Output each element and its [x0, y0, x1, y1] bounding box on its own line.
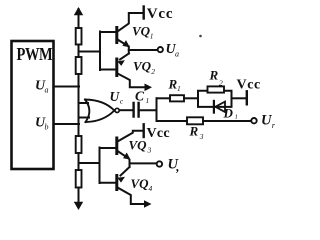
- svg-text:Vcc: Vcc: [147, 126, 170, 141]
- Vcc tick bottom: [142, 124, 144, 137]
- wire capacitor to junction: [140, 109, 157, 111]
- svg-text:1: 1: [177, 84, 181, 93]
- wire base feed bottom pair: [79, 162, 100, 164]
- wire R1 to box: [184, 97, 198, 99]
- resistor (upper chain top): [76, 28, 82, 45]
- svg-text:VQ: VQ: [133, 59, 152, 74]
- svg-text:1: 1: [146, 96, 150, 105]
- wire PWM output Ua: [54, 86, 80, 88]
- wire gate input stub lower: [79, 117, 90, 119]
- svg-text:D: D: [223, 106, 234, 121]
- transistor VQ1 base bar: [115, 28, 118, 43]
- transistor VQ2 collector: [118, 74, 146, 88]
- wire chain: [78, 153, 80, 170]
- svg-text:2: 2: [151, 67, 155, 76]
- wire chain middle: [78, 74, 80, 136]
- wire junction to R1: [157, 97, 171, 99]
- resistor (upper chain bottom): [76, 57, 82, 74]
- wire junction vertical: [156, 98, 158, 121]
- node arrow right (VQ2 collector): [145, 84, 153, 92]
- node terminal Ur: [251, 118, 256, 123]
- wire R3 to output: [203, 120, 251, 122]
- wire lower branch to R3: [157, 120, 188, 122]
- svg-text:a: a: [45, 86, 49, 95]
- wire PWM output Ub: [54, 123, 80, 125]
- resistor R3: [187, 117, 203, 124]
- transistor VQ2 emitter with arrow (PNP): [120, 54, 129, 60]
- resistor R2: [208, 86, 225, 92]
- wire chain bottom: [78, 188, 80, 203]
- wire output Uf: [130, 162, 157, 164]
- wire chain: [78, 45, 80, 58]
- node terminal Uf: [157, 161, 162, 166]
- svg-text:Vcc: Vcc: [147, 6, 174, 22]
- svg-text:1: 1: [235, 113, 238, 120]
- capacitor C1: [134, 103, 139, 117]
- transistor VQ4 base bar: [115, 176, 118, 190]
- resistor (lower chain top): [76, 136, 82, 153]
- svg-text:R: R: [168, 77, 178, 92]
- wire gate input stub upper: [79, 102, 89, 104]
- resistor (lower chain bottom): [76, 170, 82, 188]
- svg-text:2: 2: [219, 78, 223, 87]
- wire base bracket top pair: [100, 32, 117, 71]
- node arrow right (VQ4 collector): [144, 200, 152, 208]
- wire chain top: [78, 14, 80, 28]
- node supply arrow up (top of resistor chain): [78, 9, 80, 14]
- svg-text:C: C: [135, 89, 145, 104]
- svg-text:R: R: [189, 124, 199, 139]
- node gate output bubble: [115, 108, 119, 112]
- svg-text:VQ: VQ: [131, 176, 150, 191]
- diode D: [213, 101, 215, 113]
- wire base feed top pair: [79, 51, 101, 53]
- svg-text:3: 3: [199, 132, 204, 141]
- Vcc tick right: [246, 91, 248, 104]
- Vcc tick top: [142, 7, 144, 19]
- gate U_c (OR with bubble): [85, 100, 114, 123]
- wire gate output: [120, 109, 132, 111]
- svg-text:R: R: [209, 68, 219, 83]
- transistor VQ3 emitter with arrow: [118, 151, 129, 158]
- svg-text:VQ: VQ: [129, 138, 148, 153]
- transistor VQ3 collector: [118, 131, 143, 142]
- node terminal Ua: [158, 47, 163, 52]
- wire base bracket bottom pair: [100, 148, 117, 184]
- node supply arrow down (bottom of chain): [74, 202, 83, 210]
- svg-text:Vcc: Vcc: [237, 78, 261, 93]
- svg-text:VQ: VQ: [132, 24, 151, 39]
- svg-text:4: 4: [149, 184, 153, 193]
- resistor R1: [170, 95, 184, 101]
- wire emitter junction bottom pair: [129, 160, 131, 167]
- transistor VQ2 base bar: [115, 59, 118, 76]
- svg-text:b: b: [45, 123, 49, 132]
- transistor VQ4 collector: [118, 188, 146, 205]
- transistor VQ1 emitter with arrow: [118, 40, 128, 46]
- PWM box: [12, 41, 54, 169]
- svg-text:3: 3: [147, 146, 152, 155]
- wire output Ua: [129, 49, 158, 51]
- svg-text:a: a: [175, 50, 179, 59]
- wire box to Vcc tick: [232, 97, 246, 99]
- svg-text:,: ,: [175, 159, 179, 174]
- svg-text:1: 1: [150, 32, 154, 41]
- transistor VQ3 base bar: [115, 138, 118, 154]
- wire emitter junction top pair: [128, 47, 130, 54]
- svg-text:PWM: PWM: [17, 46, 53, 65]
- transistor VQ4 emitter with arrow (PNP): [121, 167, 130, 176]
- transistor VQ1 collector: [118, 13, 143, 32]
- wire parallel box R2/D: [198, 91, 232, 107]
